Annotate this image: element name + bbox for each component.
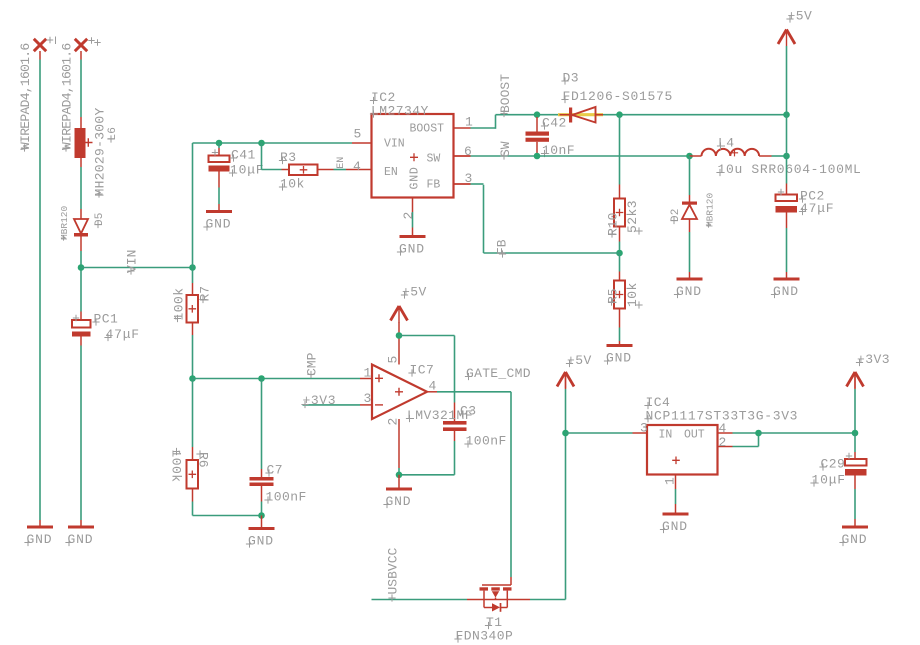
svg-text:1: 1 <box>364 366 372 381</box>
svg-text:C42: C42 <box>542 116 567 131</box>
svg-text:GND: GND <box>27 532 53 547</box>
svg-text:47μF: 47μF <box>800 201 834 216</box>
svg-text:4: 4 <box>719 421 727 436</box>
svg-text:LM2734Y: LM2734Y <box>371 104 429 119</box>
svg-text:VIN: VIN <box>384 138 405 151</box>
svg-text:BOOST: BOOST <box>498 74 513 113</box>
svg-text:MBR120: MBR120 <box>704 192 715 227</box>
svg-text:LMV321MF: LMV321MF <box>407 408 473 423</box>
svg-text:WIREPAD4,1601.6: WIREPAD4,1601.6 <box>60 43 75 150</box>
svg-text:D5: D5 <box>94 212 106 226</box>
svg-text:+5V: +5V <box>788 9 813 24</box>
svg-text:MBR120: MBR120 <box>59 205 70 240</box>
svg-text:1: 1 <box>663 477 678 485</box>
svg-text:5: 5 <box>354 127 362 142</box>
svg-text:GND: GND <box>399 242 425 257</box>
svg-text:FD1206-S01575: FD1206-S01575 <box>563 89 674 104</box>
svg-text:USBVCC: USBVCC <box>386 547 401 594</box>
svg-text:C29: C29 <box>821 457 846 472</box>
svg-text:100nF: 100nF <box>266 490 307 505</box>
svg-text:CMP: CMP <box>305 352 320 376</box>
svg-text:D2: D2 <box>670 208 682 222</box>
svg-text:BOOST: BOOST <box>410 123 445 136</box>
svg-text:2: 2 <box>385 418 400 426</box>
svg-text:GND: GND <box>662 519 688 534</box>
svg-text:2: 2 <box>719 435 727 450</box>
svg-text:GND: GND <box>409 166 422 189</box>
svg-text:GND: GND <box>676 284 702 299</box>
svg-text:4: 4 <box>353 159 361 174</box>
svg-text:GND: GND <box>386 494 412 509</box>
svg-text:GND: GND <box>206 217 232 232</box>
svg-text:+3V3: +3V3 <box>857 352 890 367</box>
svg-text:52k3: 52k3 <box>625 200 640 233</box>
svg-text:10μF: 10μF <box>812 473 846 488</box>
svg-text:+3V3: +3V3 <box>303 393 337 408</box>
svg-text:IC7: IC7 <box>410 363 435 378</box>
svg-text:100k: 100k <box>172 287 187 320</box>
svg-text:GATE_CMD: GATE_CMD <box>466 366 531 381</box>
svg-text:EN: EN <box>384 166 398 179</box>
svg-text:10μF: 10μF <box>230 163 264 178</box>
svg-text:5: 5 <box>385 356 400 364</box>
svg-text:47μF: 47μF <box>106 327 140 342</box>
svg-text:GND: GND <box>606 351 632 366</box>
svg-text:WIREPAD4,1601.6: WIREPAD4,1601.6 <box>18 43 33 150</box>
svg-text:EN: EN <box>336 157 347 169</box>
svg-text:10k: 10k <box>280 177 305 192</box>
svg-text:10u SRR0604-100ML: 10u SRR0604-100ML <box>718 162 862 177</box>
svg-text:10k: 10k <box>625 282 640 307</box>
svg-text:SW: SW <box>498 141 513 157</box>
svg-text:100nF: 100nF <box>466 434 507 449</box>
svg-text:FB: FB <box>427 179 441 192</box>
svg-text:FDN340P: FDN340P <box>456 629 514 644</box>
svg-text:L6: L6 <box>107 127 119 141</box>
svg-text:GND: GND <box>773 284 799 299</box>
svg-text:+5V: +5V <box>567 353 592 368</box>
svg-text:OUT: OUT <box>684 429 705 442</box>
svg-text:MH2029-300Y: MH2029-300Y <box>93 107 108 196</box>
svg-text:3: 3 <box>640 421 648 436</box>
svg-text:+5V: +5V <box>402 285 427 300</box>
svg-text:VIN: VIN <box>125 250 140 273</box>
svg-text:3: 3 <box>364 391 372 406</box>
svg-text:SW: SW <box>427 153 441 166</box>
svg-text:GND: GND <box>68 532 94 547</box>
svg-text:R10: R10 <box>606 213 621 236</box>
svg-text:GND: GND <box>248 534 274 549</box>
svg-text:GND: GND <box>842 532 868 547</box>
svg-text:PC1: PC1 <box>94 312 119 327</box>
svg-text:2: 2 <box>401 212 416 220</box>
svg-text:IN: IN <box>659 429 673 442</box>
svg-text:C41: C41 <box>231 148 256 163</box>
